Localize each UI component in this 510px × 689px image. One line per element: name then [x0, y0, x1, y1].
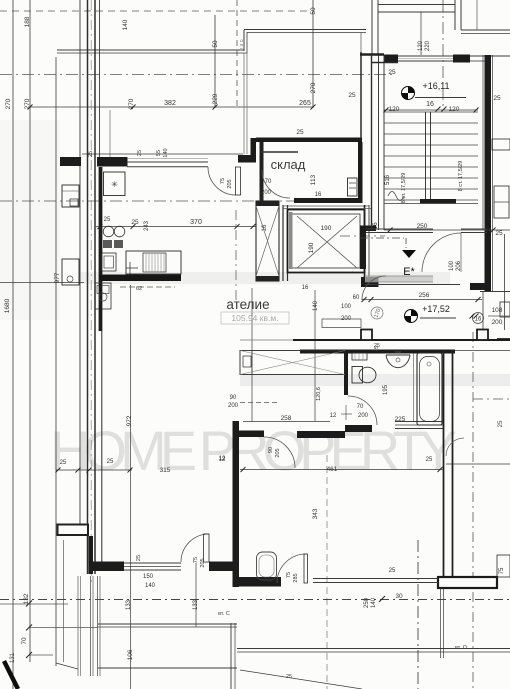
svg-text:120: 120 [449, 106, 460, 113]
svg-text:106: 106 [127, 649, 134, 660]
svg-text:285: 285 [293, 573, 299, 582]
svg-text:30: 30 [395, 593, 403, 600]
svg-text:270: 270 [24, 98, 31, 109]
svg-text:270: 270 [128, 98, 135, 109]
svg-text:25: 25 [88, 151, 94, 157]
svg-text:50: 50 [212, 40, 219, 48]
svg-text:258: 258 [281, 415, 292, 422]
svg-text:516: 516 [385, 174, 391, 185]
svg-text:100: 100 [341, 304, 352, 310]
svg-text:140: 140 [122, 19, 129, 30]
svg-text:229: 229 [212, 93, 219, 104]
svg-text:25: 25 [60, 460, 67, 466]
svg-text:382: 382 [164, 100, 176, 107]
svg-text:90: 90 [268, 447, 274, 453]
svg-text:972: 972 [126, 415, 133, 426]
svg-text:105.94 кв.м.: 105.94 кв.м. [231, 313, 278, 323]
svg-text:16: 16 [262, 224, 268, 231]
svg-text:132: 132 [23, 593, 30, 604]
svg-text:75: 75 [286, 572, 292, 578]
svg-text:220: 220 [425, 40, 431, 51]
svg-text:250: 250 [364, 597, 370, 608]
svg-text:16: 16 [302, 285, 309, 291]
svg-text:25: 25 [426, 457, 433, 463]
svg-text:200: 200 [261, 190, 272, 196]
svg-text:977: 977 [54, 272, 61, 283]
svg-text:190: 190 [321, 225, 332, 232]
svg-text:55: 55 [156, 150, 162, 156]
svg-text:склад: склад [271, 157, 306, 172]
svg-text:370: 370 [190, 219, 202, 226]
svg-text:25: 25 [131, 219, 139, 226]
svg-text:25: 25 [286, 674, 292, 680]
svg-text:+17,52: +17,52 [422, 304, 450, 314]
svg-text:вт. О: вт. О [455, 645, 468, 651]
svg-text:243: 243 [144, 220, 150, 231]
svg-text:25: 25 [374, 343, 380, 349]
svg-text:343: 343 [312, 508, 319, 519]
svg-text:256: 256 [419, 292, 430, 299]
svg-text:140: 140 [371, 597, 377, 608]
svg-text:25: 25 [498, 420, 504, 427]
svg-text:188: 188 [24, 16, 31, 27]
svg-text:270: 270 [5, 98, 12, 109]
svg-text:25: 25 [495, 230, 503, 237]
svg-text:70: 70 [265, 179, 272, 185]
svg-text:315: 315 [160, 467, 171, 474]
svg-text:25: 25 [107, 459, 114, 465]
svg-text:200: 200 [358, 413, 369, 419]
svg-text:25: 25 [137, 150, 143, 156]
svg-text:70: 70 [357, 404, 364, 410]
svg-text:150: 150 [143, 574, 154, 580]
svg-text:25: 25 [136, 555, 142, 561]
svg-text:265: 265 [299, 100, 311, 107]
svg-text:✳: ✳ [111, 180, 118, 189]
svg-text:205: 205 [275, 448, 281, 457]
svg-text:120: 120 [389, 106, 400, 113]
svg-text:50: 50 [310, 7, 317, 15]
svg-text:140: 140 [163, 148, 169, 157]
svg-text:190: 190 [308, 242, 315, 253]
svg-text:195: 195 [383, 384, 389, 395]
svg-text:120,6: 120,6 [316, 387, 322, 401]
svg-text:200: 200 [492, 319, 503, 326]
svg-text:205: 205 [200, 558, 206, 567]
svg-text:+16,11: +16,11 [422, 81, 449, 91]
svg-text:8 ст. 17,5/29: 8 ст. 17,5/29 [458, 161, 464, 192]
svg-text:1680: 1680 [4, 298, 11, 313]
svg-text:461: 461 [327, 466, 338, 473]
svg-text:в и о: в и о [239, 39, 245, 50]
svg-text:75: 75 [220, 178, 226, 184]
svg-text:205: 205 [227, 179, 233, 188]
svg-text:108: 108 [492, 307, 503, 314]
svg-text:25: 25 [388, 69, 396, 76]
svg-text:8 ст. 17,5/29: 8 ст. 17,5/29 [401, 173, 407, 204]
svg-text:вт. С: вт. С [218, 611, 230, 617]
svg-text:70: 70 [21, 637, 28, 645]
svg-text:113: 113 [310, 174, 317, 185]
svg-text:206: 206 [456, 260, 462, 271]
svg-text:12: 12 [219, 457, 226, 463]
svg-text:25: 25 [493, 95, 501, 102]
svg-text:60: 60 [353, 295, 360, 301]
svg-text:25: 25 [348, 92, 356, 99]
svg-text:133: 133 [193, 599, 199, 610]
svg-text:133: 133 [126, 599, 132, 610]
svg-text:ателие: ателие [226, 297, 269, 312]
svg-text:131: 131 [10, 652, 16, 663]
svg-text:90: 90 [230, 395, 237, 401]
svg-text:200: 200 [228, 403, 239, 409]
svg-text:75: 75 [193, 557, 199, 563]
svg-text:62: 62 [136, 286, 142, 292]
svg-text:100: 100 [449, 260, 455, 271]
svg-text:25: 25 [296, 129, 304, 136]
svg-text:12: 12 [330, 413, 337, 419]
svg-text:25: 25 [389, 568, 396, 574]
svg-text:140: 140 [313, 300, 319, 311]
svg-text:270: 270 [310, 82, 317, 93]
svg-text:25: 25 [104, 217, 111, 223]
svg-text:75: 75 [499, 567, 505, 574]
svg-text:225: 225 [395, 416, 406, 423]
svg-text:16: 16 [475, 317, 482, 323]
svg-text:120: 120 [418, 40, 424, 51]
svg-text:16: 16 [315, 192, 322, 198]
svg-text:140: 140 [145, 583, 156, 589]
svg-text:16: 16 [426, 101, 434, 108]
